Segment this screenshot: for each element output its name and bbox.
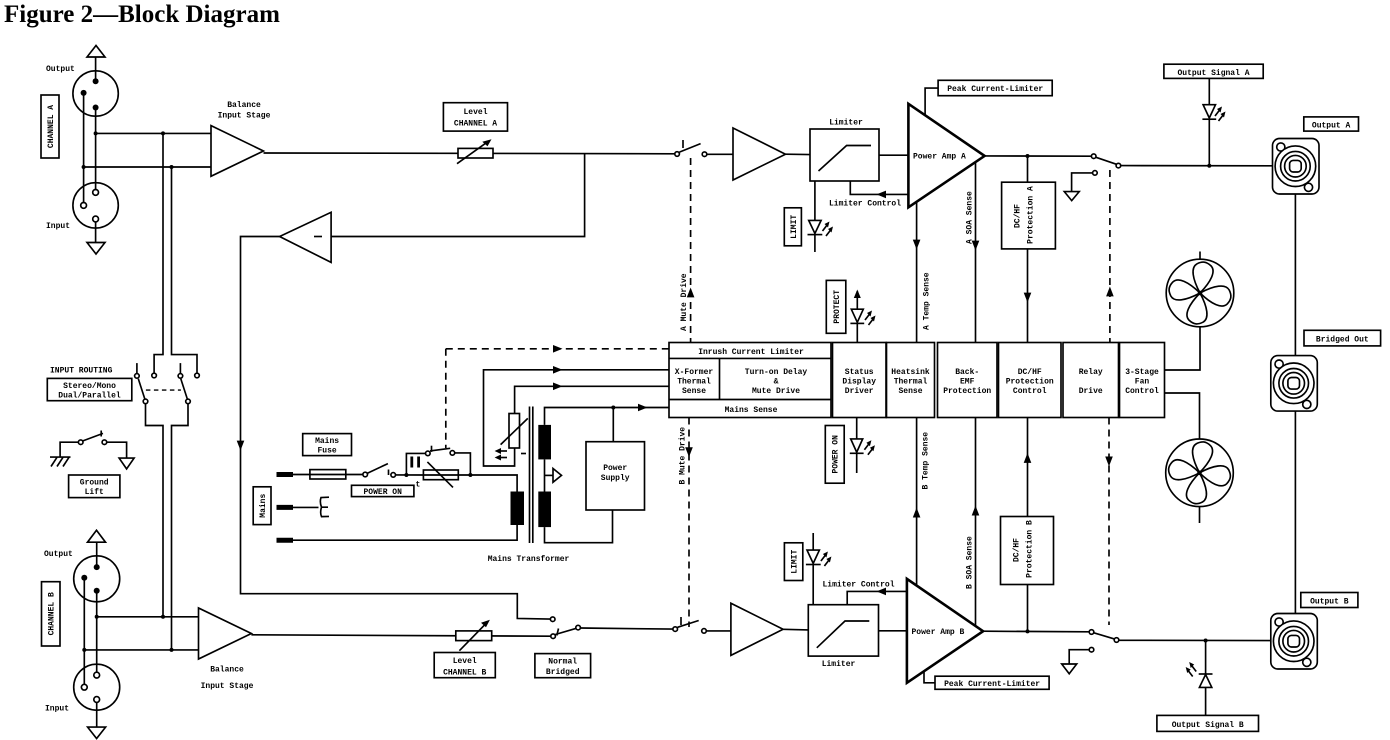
svg-text:Balance: Balance	[227, 101, 261, 110]
label Balance Input Stage B	[201, 666, 254, 692]
wire bypass right	[455, 453, 471, 475]
block Relay Drive	[1063, 343, 1119, 418]
switch output relay B	[1089, 630, 1119, 652]
arrow down relay drive B	[1105, 457, 1113, 467]
svg-text:Output Signal B: Output Signal B	[1172, 721, 1244, 730]
wire limiter B to power amp B	[879, 630, 907, 632]
svg-text:Limiter: Limiter	[822, 660, 856, 669]
speakON connector Bridged Out	[1271, 356, 1318, 412]
wire mains live	[293, 474, 363, 476]
svg-text:Sense: Sense	[682, 387, 706, 396]
svg-text:Normal: Normal	[548, 658, 577, 667]
svg-text:Stereo/Mono: Stereo/Mono	[63, 382, 116, 391]
wire limiter control A	[850, 181, 908, 194]
wire main channel B	[251, 635, 551, 636]
svg-text:Bridged: Bridged	[546, 668, 580, 677]
svg-text:Output: Output	[46, 65, 75, 74]
svg-text:Input Stage: Input Stage	[218, 112, 271, 121]
wire relay drive A (dashed)	[1109, 170, 1111, 342]
wire DC/HF A to block	[1027, 249, 1029, 343]
wire A SOA sense	[975, 162, 977, 343]
wire driver B to limiter B	[783, 628, 808, 631]
wire driver A to limiter	[786, 153, 811, 155]
wire relay drive B (dashed)	[1108, 418, 1110, 626]
op-amp Balance Input Stage A	[211, 126, 264, 177]
arrow right x-former sense 2	[553, 383, 563, 391]
svg-text:Control: Control	[1125, 387, 1159, 396]
wire channel A cold down to router	[172, 167, 198, 373]
node bypass left	[404, 473, 408, 477]
svg-text:B Mute Drive: B Mute Drive	[679, 427, 688, 485]
svg-text:LIMIT: LIMIT	[790, 215, 799, 239]
wire XLR-A pin2 down	[95, 108, 97, 193]
switch input routing	[135, 363, 200, 404]
svg-text:Protection A: Protection A	[1027, 186, 1036, 244]
svg-text:Lift: Lift	[85, 488, 104, 497]
block Heatsink Thermal Sense	[887, 343, 935, 418]
arrow up B temp sense	[913, 508, 921, 518]
svg-text:Sense: Sense	[898, 387, 922, 396]
svg-text:Fan: Fan	[1135, 378, 1150, 387]
LED Output Signal A	[1202, 78, 1225, 165]
svg-text:B SOA Sense: B SOA Sense	[966, 536, 975, 589]
svg-text:A SOA Sense: A SOA Sense	[966, 191, 975, 244]
svg-text:t: t	[416, 481, 421, 490]
transformer secondary winding top	[538, 425, 551, 460]
op-amp Balance Input Stage B	[199, 608, 252, 659]
svg-text:Power: Power	[603, 464, 627, 473]
svg-text:CHANNEL B: CHANNEL B	[443, 669, 486, 678]
svg-text:Relay: Relay	[1079, 368, 1103, 377]
wire mains earth	[293, 525, 517, 540]
wire limiter A to LIMIT LED	[814, 181, 816, 220]
block Status Display Driver	[833, 343, 887, 418]
svg-text:Mute Drive: Mute Drive	[752, 387, 800, 396]
svg-text:PROTECT: PROTECT	[833, 290, 842, 324]
arrow up DC/HF B	[1024, 453, 1032, 463]
arrow right inrush control	[553, 345, 563, 353]
block 3-Stage Fan Control	[1120, 343, 1165, 418]
svg-text:Input Stage: Input Stage	[201, 682, 254, 691]
svg-text:Limiter Control: Limiter Control	[823, 581, 895, 590]
switch ground lift	[78, 431, 106, 445]
block Power Supply	[586, 442, 645, 510]
arrow up relay drive A	[1106, 287, 1114, 297]
svg-text:Ground: Ground	[80, 479, 109, 488]
svg-text:Limiter Control: Limiter Control	[829, 200, 901, 209]
label box Mains Fuse	[303, 434, 352, 456]
mains terminal E	[277, 538, 294, 543]
thermal coupling arrows	[495, 448, 526, 461]
chassis ground symbol	[50, 457, 71, 466]
signal ground symbol	[119, 458, 134, 469]
svg-text:Bridged Out: Bridged Out	[1316, 336, 1369, 345]
arrow down A SOA sense	[972, 241, 980, 251]
svg-text:Heatsink: Heatsink	[891, 368, 930, 377]
svg-text:Balance: Balance	[210, 666, 244, 675]
wire A temp sense	[916, 202, 918, 343]
svg-text:Thermal: Thermal	[894, 378, 928, 387]
chassis arrow down (Channel A input)	[87, 222, 105, 254]
wire mains neutral	[293, 506, 319, 508]
node bypass right	[468, 473, 472, 477]
relay coil marks	[412, 457, 419, 468]
wire B temp sense	[916, 418, 918, 586]
svg-text:Output Signal A: Output Signal A	[1177, 69, 1249, 78]
svg-text:X-Former: X-Former	[675, 368, 714, 377]
node junction A cold	[82, 165, 86, 169]
wire tap to DC/HF B	[1027, 585, 1029, 632]
wire to chassis ground	[60, 442, 78, 457]
wire to signal ground	[107, 442, 127, 458]
svg-text:Peak Current-Limiter: Peak Current-Limiter	[944, 680, 1040, 689]
svg-text:Peak Current-Limiter: Peak Current-Limiter	[947, 85, 1043, 94]
svg-text:Display: Display	[842, 378, 876, 387]
wire switch to thermistor	[396, 474, 424, 476]
wire bypass left up	[406, 453, 425, 475]
svg-text:Protection B: Protection B	[1026, 520, 1035, 578]
label box Peak Current-Limiter A	[938, 80, 1052, 95]
wire mute switch B to driver B	[706, 630, 731, 632]
svg-text:&: &	[774, 378, 779, 387]
wire channel A hot down to router	[154, 133, 163, 373]
node mains sense to power supply	[611, 406, 615, 410]
wire limiter A to power amp A	[879, 154, 908, 156]
wire to peak current limiter B	[924, 671, 935, 683]
wire inrush control (dashed)	[446, 349, 669, 448]
label box POWER ON (LED)	[825, 426, 844, 484]
label box Level CHANNEL B	[434, 653, 495, 678]
mains terminal L	[277, 472, 294, 477]
node output signal A tap	[1207, 164, 1211, 168]
block Inrush Current Limiter / X-Former / Turn-on Delay / Mains Sense	[669, 343, 831, 418]
chassis arrow up (Channel A output)	[87, 46, 105, 82]
svg-text:EMF: EMF	[960, 378, 975, 387]
wire B cold to balance stage	[84, 649, 198, 651]
svg-text:Limiter: Limiter	[829, 119, 863, 128]
op-amp driver B	[731, 603, 783, 655]
block Limiter A	[810, 129, 879, 181]
connector neutral E-symbol	[320, 497, 329, 516]
wire power amp A output	[985, 155, 1092, 157]
XLR connector Channel A Output	[73, 71, 118, 116]
potentiometer Level Channel B	[456, 620, 492, 651]
svg-text:Drive: Drive	[1079, 387, 1103, 396]
wire XLR-B pin2 down	[96, 591, 98, 675]
label box Output A	[1304, 117, 1359, 131]
LED POWER ON	[850, 418, 875, 474]
svg-text:A Mute Drive: A Mute Drive	[680, 273, 689, 331]
XLR connector Channel A Input	[73, 183, 118, 228]
label Balance Input Stage A	[218, 101, 271, 121]
node DC/HF B tap	[1026, 629, 1030, 633]
node junction B cold	[82, 648, 86, 652]
wire A cold to balance stage	[84, 166, 211, 168]
switch output relay A	[1091, 154, 1120, 175]
svg-text:POWER ON: POWER ON	[363, 488, 402, 497]
svg-text:Driver: Driver	[845, 387, 874, 396]
switch A mute	[675, 140, 707, 157]
arrow right mains sense	[638, 404, 648, 412]
wire main channel A	[264, 152, 678, 155]
wire B mute drive (dashed)	[688, 418, 690, 628]
wire x-former sense 1	[484, 370, 670, 466]
label box Output Signal A	[1164, 64, 1263, 78]
label box Bridged Out	[1304, 330, 1381, 346]
wire bridged to output B	[1294, 411, 1296, 613]
block Back-EMF Protection	[938, 343, 998, 418]
svg-text:Fuse: Fuse	[317, 447, 336, 456]
wire secondary bottom to power supply	[545, 510, 613, 543]
label box PROTECT	[826, 280, 846, 333]
wire switch to driver A	[707, 153, 733, 155]
node tap A hot	[161, 131, 165, 135]
wire DC/HF B to block	[1027, 418, 1029, 517]
wire router pole 2 down	[172, 404, 189, 650]
wire A mute drive (dashed)	[690, 158, 692, 342]
arrow down on bridge wire	[237, 441, 245, 451]
node tap B hot	[161, 615, 165, 619]
svg-text:Figure 2—Block Diagram: Figure 2—Block Diagram	[4, 1, 280, 28]
fuse	[310, 470, 346, 479]
label box Stereo/Mono Dual/Parallel	[47, 378, 132, 400]
arrow down DC/HF A	[1024, 293, 1032, 303]
wire limiter control B	[847, 591, 907, 604]
LED Output Signal B	[1186, 641, 1213, 716]
node junction B hot	[95, 615, 99, 619]
svg-text:Power Amp B: Power Amp B	[912, 628, 965, 637]
chassis arrow up (Channel B output)	[88, 530, 106, 567]
wire mains sense	[545, 408, 670, 425]
transformer core	[530, 407, 533, 544]
switch B mute	[673, 617, 706, 633]
svg-text:Level: Level	[453, 657, 477, 666]
arrow right x-former sense 1	[553, 366, 563, 374]
wire output B	[1119, 639, 1271, 641]
switch power on	[363, 464, 396, 478]
svg-text:Back-: Back-	[955, 368, 979, 377]
svg-text:CHANNEL A: CHANNEL A	[47, 105, 56, 148]
label box Peak Current-Limiter B	[935, 676, 1049, 689]
label box Mains	[253, 487, 271, 525]
svg-text:Input: Input	[45, 705, 69, 714]
wire fan A	[1165, 327, 1201, 370]
svg-text:Level: Level	[463, 108, 487, 117]
svg-text:POWER ON: POWER ON	[832, 435, 841, 474]
svg-text:Protection: Protection	[943, 387, 991, 396]
LED PROTECT	[850, 290, 875, 343]
svg-text:Thermal: Thermal	[677, 378, 711, 387]
wire x-former sense 2	[515, 386, 669, 413]
wire B hot to balance stage	[97, 616, 199, 618]
svg-text:Turn-on Delay: Turn-on Delay	[745, 368, 808, 377]
svg-text:CHANNEL B: CHANNEL B	[48, 592, 57, 635]
block DC/HF Protection B	[1001, 517, 1054, 585]
label box LIMIT A	[784, 208, 801, 246]
XLR connector Channel B Output	[74, 556, 120, 602]
svg-text:Mains: Mains	[259, 494, 268, 518]
svg-text:3-Stage: 3-Stage	[1125, 368, 1159, 377]
label box CHANNEL A	[41, 95, 59, 158]
svg-text:Mains Transformer: Mains Transformer	[488, 555, 570, 564]
svg-text:DC/HF: DC/HF	[1013, 538, 1022, 562]
node DC/HF A tap	[1026, 154, 1030, 158]
chassis arrow down (Channel B input)	[88, 702, 106, 738]
wire output A	[1121, 165, 1273, 167]
block DC/HF Protection Control	[999, 343, 1062, 418]
wire inverter output down to bridged switch	[241, 237, 551, 620]
wire feedback tap down	[331, 153, 584, 237]
LED LIMIT A	[808, 220, 834, 252]
node output signal B tap	[1204, 639, 1208, 643]
svg-text:Output B: Output B	[1310, 598, 1349, 607]
arrow left limiter control B	[877, 588, 887, 596]
svg-text:Input: Input	[46, 222, 70, 231]
wire power amp B output	[983, 630, 1089, 633]
LED LIMIT B	[806, 533, 832, 605]
label box LIMIT B	[784, 543, 802, 581]
arrow left limiter control A	[877, 191, 887, 199]
switch normal/bridged	[550, 617, 580, 639]
svg-text:DC/HF: DC/HF	[1014, 204, 1023, 228]
svg-text:Control: Control	[1013, 387, 1047, 396]
ground symbol A output	[1064, 173, 1092, 201]
svg-text:A Temp Sense: A Temp Sense	[923, 272, 932, 330]
wire XLR-B pin3 down	[83, 578, 85, 687]
svg-text:DC/HF: DC/HF	[1018, 368, 1042, 377]
potentiometer Level Channel A	[457, 139, 493, 164]
node tap A cold	[170, 165, 174, 169]
svg-text:Status: Status	[845, 368, 874, 377]
switch inrush bypass relay	[426, 446, 455, 456]
node tap B cold	[170, 648, 174, 652]
svg-text:Inrush Current Limiter: Inrush Current Limiter	[698, 348, 804, 357]
transformer secondary winding bottom	[538, 492, 551, 528]
wire output A down to bridged	[1294, 194, 1296, 356]
svg-text:Mains Sense: Mains Sense	[725, 406, 778, 415]
mains terminal N	[277, 505, 294, 510]
svg-text:Supply: Supply	[601, 474, 630, 483]
arrow up B SOA sense	[972, 506, 980, 516]
svg-text:Output A: Output A	[1312, 122, 1351, 131]
svg-text:Output: Output	[44, 550, 73, 559]
label box Level CHANNEL A	[443, 103, 507, 131]
label box POWER ON switch	[352, 485, 414, 497]
wire XLR-A pin3 down	[83, 93, 85, 205]
svg-text:B Temp Sense: B Temp Sense	[922, 432, 931, 490]
wire secondary center tap	[545, 459, 562, 491]
label box Output B	[1301, 593, 1358, 608]
speakON connector Output A	[1273, 139, 1320, 195]
op-amp Power Amp B	[907, 579, 983, 683]
svg-text:Power Amp A: Power Amp A	[913, 153, 966, 162]
label box CHANNEL B	[42, 582, 61, 646]
thermistor x-former sense	[501, 414, 528, 449]
wire to power supply top	[612, 408, 614, 442]
arrow up A mute drive	[687, 288, 695, 298]
transformer primary winding	[511, 492, 525, 526]
arrow down B mute drive	[685, 447, 693, 457]
fan B	[1164, 438, 1234, 523]
svg-text:CHANNEL A: CHANNEL A	[454, 120, 497, 129]
XLR connector Channel B Input	[74, 664, 120, 710]
block DC/HF Protection A	[1002, 182, 1056, 249]
label box Output Signal B	[1157, 715, 1259, 731]
label box Ground Lift	[69, 475, 120, 498]
svg-text:LIMIT: LIMIT	[791, 550, 800, 574]
wire bridged common to mute switch B	[580, 628, 673, 629]
ground symbol B output	[1062, 650, 1090, 674]
thermistor inrush	[423, 462, 458, 488]
wire fan B	[1165, 393, 1200, 439]
label box Normal Bridged	[535, 654, 591, 678]
arrow down A temp sense	[913, 240, 921, 250]
op-amp driver A	[733, 128, 786, 180]
op-amp Power Amp A	[908, 104, 984, 208]
svg-text:Protection: Protection	[1006, 378, 1054, 387]
fan A	[1165, 252, 1235, 329]
svg-text:Mains: Mains	[315, 437, 339, 446]
block Limiter B	[808, 605, 878, 656]
op-amp inverter (bridge drive)	[280, 212, 332, 262]
wire router pole 1 down	[146, 404, 164, 617]
wire B SOA sense	[975, 418, 977, 627]
wire thermistor line	[423, 474, 470, 476]
wire to transformer primary top	[470, 475, 517, 492]
wire tap to DC/HF A	[1027, 156, 1029, 182]
wire to peak current limiter A	[925, 88, 938, 115]
speakON connector Output B	[1271, 614, 1318, 670]
node junction A hot	[94, 131, 98, 135]
wire A hot to balance stage	[96, 132, 211, 134]
svg-text:INPUT ROUTING: INPUT ROUTING	[50, 367, 113, 376]
svg-text:Dual/Parallel: Dual/Parallel	[58, 392, 121, 401]
